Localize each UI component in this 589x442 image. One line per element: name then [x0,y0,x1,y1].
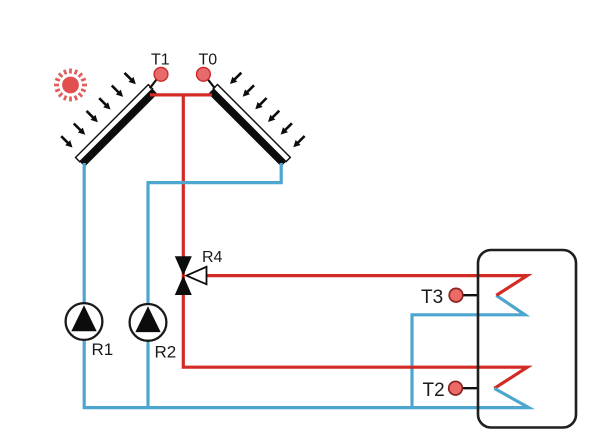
wire: blue return from collector 2 via pump R2 [148,163,281,408]
svg-text:T2: T2 [423,380,445,401]
valve R4 [175,256,207,295]
svg-text:T3: T3 [421,287,443,308]
wire: blue return from collector 1 via pump R1 to tank lower coil [84,163,529,408]
sensor T0 [197,67,215,88]
wire: red branch from valve R4 to tank upper coil [206,276,527,296]
svg-text:R4: R4 [202,249,223,266]
sensor T2 [449,381,479,395]
solar collector 2 (right, sensor T0) [208,85,290,167]
sunlight arrows onto collector 2 [230,73,305,148]
solar collector 1 (left, sensor T1) [76,85,158,167]
svg-text:T0: T0 [199,52,218,69]
sensor T3 [449,288,478,302]
sensor T1 [150,67,168,88]
svg-text:T1: T1 [151,52,170,69]
svg-text:R2: R2 [155,343,177,362]
storage tank outline [478,250,576,428]
wire: blue return from tank upper coil down to bottom run [412,295,525,407]
svg-text:R1: R1 [92,340,114,359]
storage tank body [478,250,576,428]
pump R1 [66,303,103,340]
sunlight arrows onto collector 1 [61,73,136,148]
wire: red header between collector outlets [150,93,212,96]
pump R2 [130,304,167,341]
wire: red supply from collectors through valve R4 to tank lower coil [183,95,527,389]
sun [54,69,87,102]
